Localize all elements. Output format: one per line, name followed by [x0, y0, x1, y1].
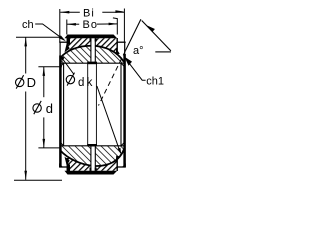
groove cap bottom [87, 144, 97, 146]
outer ring OD bottom bar [65, 171, 118, 175]
outer ring right face bottom [116, 158, 118, 171]
Bi extension line right [123, 9, 125, 43]
outer ring chamfer blob top-left [65, 44, 70, 53]
bore chamfer diagonal top-right [121, 63, 125, 67]
inner ring shoulder line top-right [117, 41, 126, 43]
Odk leader arrowhead [118, 148, 122, 155]
tilt line dashed part [99, 51, 126, 106]
inner ring face chamfer blob bottom-left [59, 163, 63, 167]
inner ring face chamfer blob bottom-right [122, 163, 126, 167]
svg-text:ch1: ch1 [146, 75, 164, 87]
bore chamfer edge line right [120, 63, 122, 146]
svg-text:dk: dk [78, 77, 95, 89]
dimension Bo line left segment [67, 23, 79, 25]
oil hole wall left top [90, 38, 92, 61]
svg-text:a°: a° [133, 45, 144, 57]
sphere arc top [60, 46, 124, 62]
outer ring left face bottom [66, 158, 68, 171]
Od arrow top [43, 67, 46, 76]
Bo extension line right [116, 18, 118, 34]
outer ring OD top bar [65, 35, 118, 39]
bore chamfer diagonal bottom-right [121, 142, 125, 146]
Bo extension line left [66, 20, 68, 35]
inner ring right face (thick) [123, 54, 126, 167]
OD arrow top [24, 37, 27, 46]
svg-text:Bi: Bi [83, 8, 95, 20]
label Odk: phi symbol [66, 75, 74, 83]
Bi arrow right [115, 10, 124, 13]
OD extension line top [16, 36, 60, 38]
Bo arrow left [67, 23, 76, 26]
oil hole countersink blob top-left [90, 38, 92, 41]
dimension OD line upper segment [25, 37, 27, 73]
angle arrowhead [145, 25, 155, 32]
oil hole countersink blob bottom-right [95, 168, 97, 171]
Odk up-left leader arrowhead blob [59, 55, 64, 61]
bore line bottom [60, 145, 124, 147]
inner ring left face (thin upper part) [59, 42, 61, 56]
inner ring bottom section hatch [60, 146, 124, 166]
inner ring shoulder line top-left [59, 41, 67, 43]
svg-text:D: D [27, 75, 36, 90]
svg-text:d: d [46, 101, 53, 116]
oil hole channel white-out top [91, 38, 95, 61]
Bi extension line left [59, 9, 61, 42]
OD arrow bottom [24, 171, 27, 180]
Odk leader down-right [97, 86, 120, 152]
bore groove edge line right [95, 64, 97, 145]
outer ring chamfer blob bottom-left [65, 157, 70, 166]
bore chamfer diagonal bottom-left [60, 142, 63, 146]
angle horizontal segment [155, 51, 171, 53]
label Od: phi symbol [33, 104, 41, 112]
Odk leader up-left [63, 59, 74, 74]
oil hole wall right bottom [94, 146, 96, 170]
tilt line solid part [125, 19, 140, 51]
dimension Bo line right segment [97, 23, 118, 25]
label OD: phi symbol [16, 78, 24, 86]
bore chamfer edge line left [63, 63, 65, 146]
ch arrowhead [59, 35, 66, 41]
svg-text:Bo: Bo [83, 19, 98, 31]
ch1 leader [127, 60, 146, 80]
groove cap top [87, 62, 97, 65]
oil hole wall left bottom [90, 146, 92, 170]
Bi arrow left [60, 11, 69, 14]
angle line [142, 21, 171, 51]
inner ring left face (thick) [59, 56, 62, 168]
ch1 arrowhead [124, 57, 132, 66]
Od extension line bottom [38, 147, 60, 149]
Od arrow bottom [43, 139, 46, 148]
dimension OD line lower segment [25, 92, 27, 180]
sphere arc bottom [60, 148, 124, 166]
dimension Bi line right segment [102, 11, 124, 13]
Bo arrow right [109, 23, 118, 26]
Bo extension top tick [113, 17, 118, 20]
outer ring left face top [66, 38, 68, 50]
svg-text:ch: ch [22, 19, 34, 31]
OD extension line bottom [14, 179, 62, 181]
dimension Bi line left segment [60, 11, 80, 13]
ch leader [35, 24, 64, 40]
inner ring shoulder line bottom-left [59, 166, 67, 168]
oil hole wall right top [94, 38, 96, 61]
outer ring chamfer blob bottom-right [116, 156, 120, 162]
Od extension line top [38, 66, 62, 68]
oil hole countersink blob bottom-left [90, 168, 92, 171]
outer ring chamfer blob top-right [116, 48, 120, 55]
dimension Od line lower segment [43, 117, 45, 147]
inner ring right face (thin upper part) [124, 42, 126, 55]
bore line top [60, 62, 124, 64]
outer ring right face top [116, 38, 118, 54]
oil hole countersink blob top-right [95, 38, 97, 41]
inner ring top section hatch [60, 46, 124, 63]
inner ring shoulder line bottom-right [117, 166, 126, 168]
bore chamfer diagonal top-left [60, 63, 63, 67]
dimension Od line upper segment [43, 67, 45, 97]
bore groove edge line left [87, 64, 89, 145]
oil hole channel white-out bottom [91, 146, 95, 171]
